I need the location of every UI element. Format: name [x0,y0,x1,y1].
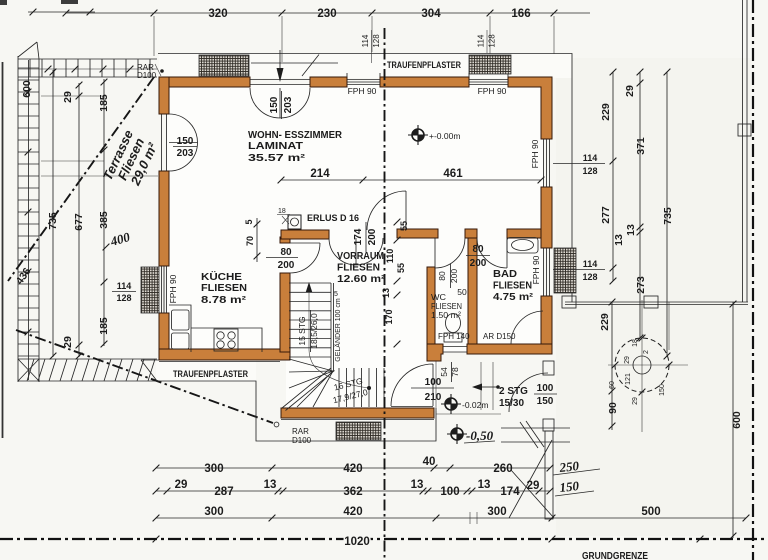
traufenpflaster band white [159,53,572,78]
svg-text:121: 121 [625,373,632,385]
svg-text:114: 114 [477,34,486,47]
svg-text:13: 13 [478,479,491,491]
stair upper flight steps [289,283,331,357]
svg-text:1020: 1020 [344,536,370,548]
north wall segment A [159,77,250,87]
bottom dim 1020 [153,536,160,543]
setback diagonal dash-dot upper [8,77,154,281]
svg-text:TRAUFENPFLASTER: TRAUFENPFLASTER [387,60,461,70]
west french door 150/203 [162,114,198,171]
wc toilet [446,314,461,333]
downpipe / gate post [545,431,553,519]
east window FPH90-2 + shutter box [544,248,550,296]
svg-text:210: 210 [425,392,442,403]
gate swing diagonals [509,440,554,518]
entrance door 100/210 [391,364,433,407]
stair break line [282,368,335,411]
north french door opening 150/203 [250,80,310,119]
svg-text:273: 273 [635,276,647,294]
porch pillar upper [543,361,554,375]
svg-text:55: 55 [396,263,406,273]
svg-text:128: 128 [488,34,497,48]
svg-text:1.50 m²: 1.50 m² [431,310,461,320]
mirror dash-dot line [384,28,386,560]
bottom dim row C 300/420/300/500 [156,517,746,519]
svg-text:174: 174 [500,486,520,498]
terrasse handwritten label [100,128,161,189]
eave outline south-west band [141,360,436,441]
window label 114/128 top-2 [486,30,488,53]
svg-text:40: 40 [423,456,436,468]
svg-text:80: 80 [472,244,484,255]
svg-text:128: 128 [372,34,381,48]
svg-text:FLIESEN: FLIESEN [337,262,380,274]
svg-text:5: 5 [334,291,338,298]
svg-text:90: 90 [607,402,619,414]
wc/bad south wall east part [467,344,552,354]
left scan frame line [2,62,4,438]
svg-text:150: 150 [269,96,280,113]
window label 114/128 top-1 [371,30,373,63]
svg-text:200: 200 [278,260,295,271]
svg-text:420: 420 [343,506,362,518]
svg-text:304: 304 [421,8,441,20]
fence line east garden [565,302,748,305]
svg-text:100: 100 [440,486,459,498]
svg-text:114: 114 [583,259,598,269]
bad north wall segment [507,229,541,238]
north window FPH90-1 [347,73,380,85]
svg-text:8.78 m²: 8.78 m² [201,294,247,306]
bad washbasin [507,238,538,254]
svg-text:18,5/26,0: 18,5/26,0 [309,313,319,349]
svg-text:362: 362 [343,486,362,498]
svg-text:29: 29 [175,479,188,491]
svg-text:D100: D100 [292,436,312,445]
bottom dim row B 29/287/13/362/13/100/13/174/29 [156,490,550,492]
svg-text:D100: D100 [137,71,157,80]
svg-text:35.57 m²: 35.57 m² [248,152,306,164]
svg-text:18: 18 [278,208,286,215]
kitchen counter [169,305,262,352]
wc west wall [427,267,435,344]
wc/bad wall stub [465,229,477,238]
east window FPH90-1 [544,139,550,187]
svg-text:4.75 m²: 4.75 m² [493,291,534,303]
svg-text:+-0.00m: +-0.00m [429,131,460,141]
property boundary bottom [0,538,768,540]
stair walk line + arrow [309,286,369,388]
svg-text:13: 13 [613,234,625,246]
svg-text:70: 70 [245,236,255,246]
svg-text:200: 200 [367,228,378,245]
svg-text:230: 230 [317,8,336,20]
svg-text:29: 29 [62,91,74,103]
svg-text:100: 100 [425,377,442,388]
svg-text:-0,50: -0,50 [466,428,494,443]
svg-text:5: 5 [244,219,254,224]
interior dim 214/461 [281,179,541,181]
terrace witness lines [41,96,158,176]
svg-text:229: 229 [599,313,611,331]
svg-text:FPH 90: FPH 90 [531,255,541,284]
left dim chain 385/185 [103,79,105,346]
north window FPH90-2 + shutter box [469,73,508,85]
chimney ERLUS D16 [277,208,301,229]
svg-text:13: 13 [381,288,391,298]
svg-text:677: 677 [73,213,85,231]
north wall segment B [310,77,347,87]
porch pillar lower [543,419,554,431]
svg-text:2 STG: 2 STG [499,386,528,397]
porch floor edge [436,356,501,414]
svg-text:FLIESEN: FLIESEN [201,282,247,294]
east wall lower [541,296,552,354]
svg-text:BAD: BAD [493,268,517,280]
svg-text:461: 461 [443,168,463,180]
svg-text:735: 735 [662,207,674,225]
svg-text:LAMINAT: LAMINAT [248,140,304,152]
svg-text:FLIESEN: FLIESEN [493,280,532,292]
exterior steps east of entrance [501,421,570,448]
svg-text:12.60 m²: 12.60 m² [337,273,386,285]
west wall upper [159,77,169,114]
north wall segment D + east corner [508,77,552,139]
svg-text:13: 13 [625,224,637,236]
svg-text:2: 2 [643,350,650,354]
east wall mid [541,187,552,248]
svg-text:150: 150 [659,384,666,396]
svg-text:GRUNDGRENZE: GRUNDGRENZE [582,550,648,560]
svg-text:VORRAUM: VORRAUM [337,250,384,262]
benchmark level +-0.00 [408,125,428,145]
west wall lower [159,313,169,360]
svg-text:203: 203 [177,148,194,159]
top dimension line [66,12,590,14]
svg-text:300: 300 [487,506,506,518]
top-left corner ticks [28,11,95,13]
door label 150/203 north (rot) [281,91,283,119]
svg-text:203: 203 [283,96,294,113]
svg-text:13: 13 [264,479,277,491]
svg-text:29: 29 [62,336,74,348]
svg-text:300: 300 [204,463,223,475]
svg-text:150: 150 [537,396,554,407]
svg-text:TRAUFENPFLASTER: TRAUFENPFLASTER [173,369,248,379]
right dim chain 29/371/273 [639,72,641,338]
svg-text:29: 29 [624,85,636,97]
svg-text:128: 128 [582,166,597,176]
svg-text:214: 214 [310,168,330,180]
shutter box hatch top-right [469,55,511,74]
svg-text:500: 500 [641,506,660,518]
svg-text:FPH 90: FPH 90 [348,86,377,96]
right dim chain 229/277/13 [612,72,614,281]
svg-text:15/30: 15/30 [499,398,524,409]
door label 174/200 (rot) [365,222,367,252]
svg-text:50: 50 [457,287,467,297]
svg-text:-0.02m: -0.02m [462,400,488,410]
svg-text:735: 735 [47,212,59,230]
vorraum double door 174/200 [329,238,383,265]
svg-text:18: 18 [632,339,639,347]
setback diagonal dash-dot lower [16,330,273,423]
svg-text:260: 260 [493,463,512,475]
svg-text:AR D150: AR D150 [483,332,516,341]
svg-text:200: 200 [470,258,487,269]
svg-text:110: 110 [385,249,395,264]
svg-text:128: 128 [582,272,597,282]
right lower chain 229/90 [611,302,613,430]
fence post 2 [644,296,658,308]
stair railing [331,283,334,371]
terrace south edge strip [18,359,157,381]
svg-text:15 STG: 15 STG [297,316,307,345]
svg-text:78: 78 [450,367,460,377]
svg-text:FPH 90: FPH 90 [478,86,507,96]
svg-text:RAR: RAR [292,427,309,436]
left dim chain 735 [52,70,54,357]
stair hall west wall [280,273,290,352]
property boundary right [752,0,754,560]
entrance south wall [281,408,434,418]
svg-text:55: 55 [399,221,409,231]
svg-text:185: 185 [98,94,110,112]
svg-text:13: 13 [411,479,424,491]
svg-text:114: 114 [361,34,370,47]
north wall segment C [380,77,469,87]
svg-text:114: 114 [117,281,132,291]
porch gate swing 100/150 [509,373,548,412]
svg-text:300: 300 [204,506,223,518]
svg-text:114: 114 [583,153,598,163]
svg-text:150: 150 [177,136,194,147]
svg-text:420: 420 [343,463,362,475]
kitchen sink [172,310,190,330]
bad door 80/200 [477,238,507,268]
west wall mid [159,171,169,266]
benchmark level -0.50 [447,424,467,444]
benchmark level -0.02 [441,394,461,414]
svg-text:371: 371 [635,137,647,155]
svg-text:385: 385 [98,211,110,229]
svg-text:287: 287 [214,486,233,498]
svg-text:80: 80 [280,247,292,258]
stair hall west wall stub [280,237,290,243]
svg-text:54: 54 [439,367,449,377]
vorraum dim chain 55/110/55/13/170 [394,219,401,226]
svg-text:FPH 140: FPH 140 [438,332,470,341]
fence post 1 [562,296,576,308]
svg-text:174: 174 [353,228,364,245]
bad corner shower [511,311,543,344]
kitchen dim 70/5 [256,218,258,262]
svg-text:128: 128 [116,293,131,303]
wc/bad dividing wall [468,238,477,344]
living south wall stub w/ chimney [281,230,329,239]
svg-text:FPH 90: FPH 90 [530,139,540,168]
svg-text:250: 250 [558,458,580,475]
house interior white [166,84,544,352]
wc window 54/78 [443,347,467,353]
wc window label 54/78 (rot) [451,362,453,382]
bottom dim row A 300/420/40/260 [156,467,550,469]
stair lower flight steps [339,368,384,407]
kitchen door 80/200 [290,243,320,273]
west window FPH90 + shutter box [162,266,167,313]
right dim chain 735 [666,72,668,356]
svg-text:60: 60 [609,381,616,389]
fence line right boundary [743,0,748,302]
right chain 600 [732,302,734,538]
svg-text:277: 277 [600,206,612,224]
svg-text:185: 185 [98,317,110,335]
scan specks top edge [0,0,7,5]
kitchen stove [214,329,238,351]
north door direction arrow [251,50,338,68]
wc door 80/200 [435,238,465,268]
svg-text:100: 100 [537,383,554,394]
entrance drain grate hatch RAR D100 [336,422,381,440]
terrace north edge strip [18,59,157,77]
svg-text:29: 29 [624,356,631,364]
left dim chain 677 + 29 [78,83,80,357]
fence post right [738,124,751,136]
svg-text:600: 600 [21,80,33,98]
terrace west edge strip [18,42,39,382]
svg-text:150: 150 [559,478,580,495]
svg-text:29: 29 [632,397,639,405]
wc/bad south wall west part [427,344,443,361]
svg-text:GELÄNDER 100 cm: GELÄNDER 100 cm [334,298,342,362]
sewer shaft circle [608,300,688,432]
shutter box hatch top-left [199,55,249,76]
eave outline top (Traufenpflaster) [158,54,572,303]
svg-text:80: 80 [437,271,447,281]
kitchen south wall [159,349,290,360]
svg-text:166: 166 [511,8,530,20]
svg-text:320: 320 [208,8,227,20]
svg-text:FPH 90: FPH 90 [168,274,178,303]
svg-text:170: 170 [384,309,394,324]
svg-text:200: 200 [449,269,459,283]
vorraum south wall segment [397,229,438,238]
svg-text:600: 600 [731,411,743,429]
stair winder treads [289,359,333,407]
svg-text:229: 229 [600,103,612,121]
living room door leaf swing [367,191,406,230]
svg-text:29: 29 [527,480,540,492]
svg-text:ERLUS D 16: ERLUS D 16 [307,213,359,223]
